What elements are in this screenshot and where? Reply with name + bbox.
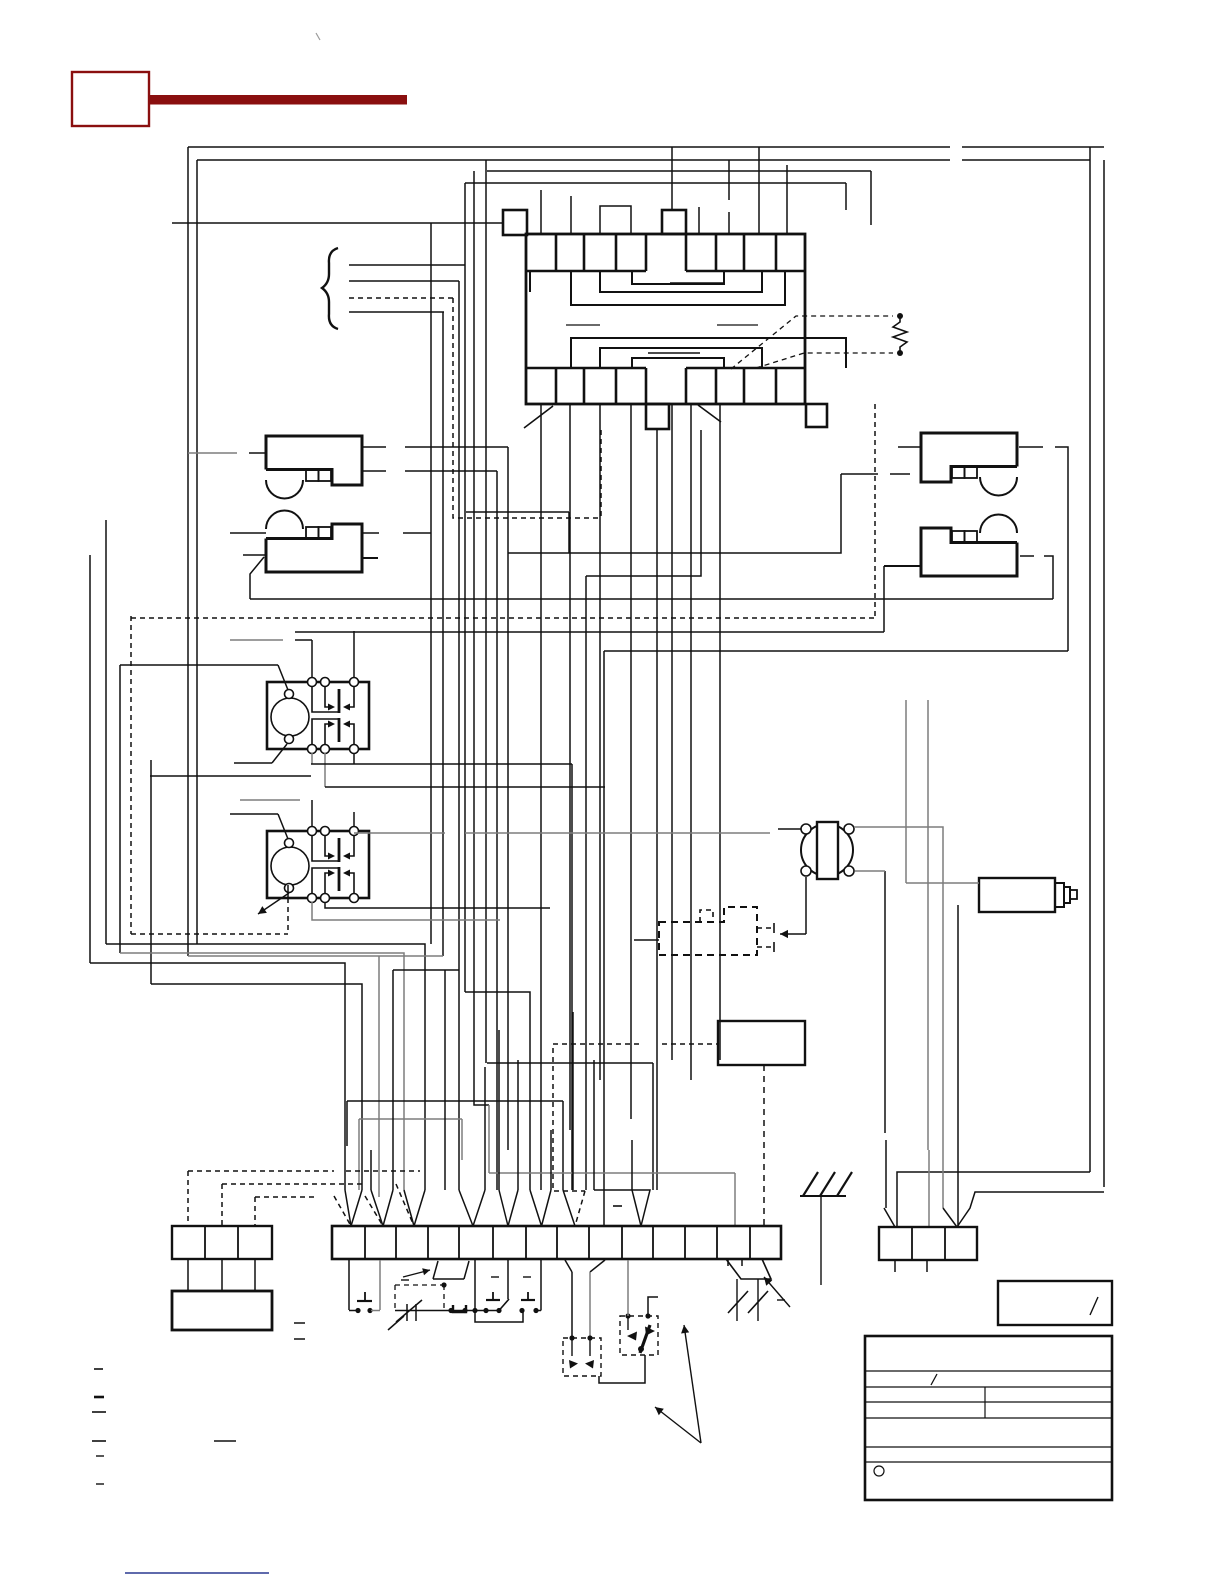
wire gray run y1119 [359,1118,462,1120]
wire K3 left lead 2 [841,473,878,475]
wire K2 left lead [230,532,266,534]
motor M1 (upper actuator) [267,682,369,749]
wire drop x572 [571,1272,573,1338]
aux connector CR1 stubs below [894,1260,896,1272]
wire sw drop x475 [474,1260,476,1311]
dashed run y1197 [255,1196,318,1198]
junction block outrigger box T1 [662,210,686,234]
wire run y651 [604,650,1068,652]
wire bundle turn y944 [106,944,425,1190]
dashed link to resistor lower [756,353,893,368]
red header placeholder box [72,72,149,126]
wire run y787 [325,786,605,788]
wire drop x563 [562,1101,564,1190]
dashed unit outline [659,907,757,955]
switch arrow [403,1270,430,1277]
junction block outline [526,234,805,404]
cylinder sensor steps [1055,883,1064,907]
legend box [998,1281,1112,1325]
annotation dash mid [214,1440,236,1442]
wire K2 elbow lead [243,554,266,556]
main strip connector [332,1226,781,1259]
switch S4 lever [499,1299,509,1311]
wire K3 left lead 1 [898,446,921,448]
wire bundle turn y956 [188,955,443,957]
wire funnel f575 half-dashed [563,1190,575,1226]
wire top run A [487,170,871,172]
wire top drop x787 [786,165,788,234]
wire funnel right f895 [884,1208,895,1227]
wire staple x600-x631 [600,206,631,234]
wire buzzer drop arrow [805,877,807,934]
wire column x459 [458,281,460,970]
wire column x885 lower [884,871,886,1133]
red header rule bar [149,95,407,105]
wire funnel f641 [594,1190,650,1226]
wire box B1 dashed left [553,1043,643,1045]
dashed enclosure left [130,616,132,934]
wire column x906 [905,700,907,883]
ground symbol [800,1195,846,1197]
wire funnel right f957 leg [943,1208,957,1227]
relay K2 (left lower) [266,524,362,572]
wire K1 right lead 2 [362,470,386,472]
arrow long 1 [684,1325,701,1443]
wire drop x590 gray [589,1272,591,1338]
title table circle [874,1466,884,1476]
switch S7 dashed box [620,1316,658,1355]
wire column x465 [464,183,466,992]
wire column x875 dashed [874,404,876,618]
wire M2 top lead b [311,800,313,827]
aux connector CL1 [172,1226,272,1259]
wire column x720 [719,404,721,1060]
wire column x672 [671,404,673,1060]
junction block top pin row [526,270,646,272]
dashed unit pins [757,927,774,929]
wire column x884 upper [883,566,885,632]
relay K3 (right upper) [921,433,1017,482]
junction block bus stub x530 [529,271,531,292]
dashed link to resistor upper [731,316,893,369]
wire column x604 [603,651,605,1226]
wire funnel f414 [404,1190,414,1226]
wire top drop x729 [728,160,730,200]
wire M1 bottom lead c [353,753,355,764]
junction block outrigger box T0 [503,210,527,235]
wire run y764 [311,763,572,765]
wire column x928 [927,700,929,1150]
switch S2 dashed enclosure [395,1284,442,1286]
dashed run y1171 [188,1170,334,1172]
wire K2 right lead 1 [362,532,379,534]
wire bundle turn y970 [393,969,459,971]
wire run y776 [150,775,311,777]
wire drop x347 [346,1101,348,1146]
wire column x443 [442,312,444,956]
title table slash mark [931,1374,937,1385]
buzzer BZ1 [801,824,853,876]
wire trapezoid feeders [727,1259,729,1266]
wire bundle turn y984 [151,984,362,1190]
arrow into trapezoid [764,1277,790,1307]
wire cylinder lower lead [957,905,959,1227]
wire run y1101 [347,1100,563,1102]
aux connector CL1 links [187,1259,189,1291]
wire buzzer left lead [465,832,770,834]
wire buzzer right lead top [854,827,943,1208]
junction block bottom pin row [526,367,646,369]
aux block CL2 [172,1291,272,1330]
wire run y599 long [250,598,1053,600]
switch S2 minus [401,1279,409,1281]
junction block outrigger box B1 [806,404,827,427]
wire run y576 [586,430,701,576]
wire trapezoid drop [726,1259,771,1279]
dash mark near strip [613,1205,622,1207]
wire M1 top lead b [311,640,313,678]
annotation dash 2 [94,1396,104,1399]
wire column x151 [150,760,152,984]
dashed drops to aux connector [187,1171,189,1226]
arrow long 2 [655,1407,701,1443]
resistor (test) zigzag [897,313,903,319]
wire brace line 4 [349,311,444,313]
wire jog y512 [466,511,569,513]
wire funnel f383 [371,1190,383,1226]
junction block inner bus top [571,271,785,305]
switch S5 pushbutton [527,1292,529,1300]
switch S7 contacts [627,1316,629,1330]
wire M2 top lead a [230,813,278,815]
annotation dash 1 [94,1368,103,1370]
wire drop x653 [652,1063,654,1190]
control box B1 [718,1021,805,1065]
wire frame right lower turn outer [957,1192,1104,1227]
wire gray run y1173 [489,1172,735,1174]
wire frame left inner [196,160,198,944]
footer blue rule [125,1572,269,1574]
wire funnel dashed d553 [553,1048,585,1191]
aux connector CR1 [879,1227,977,1260]
wire buzzer right lead bottom [855,870,885,872]
wire run y553 [508,474,841,553]
wire K1 left lead [188,452,237,454]
wire left entry to box T0 [172,222,503,224]
wire M2 bottom lead a [312,902,500,920]
wire column x691 [690,404,692,1080]
wire bundle turn y963 [90,963,345,1190]
annotation dash CL2 a [294,1322,305,1324]
wire S6 to S7 link [599,1355,645,1383]
wire out-funnel [565,1260,572,1272]
wire sw z-jog [433,1261,438,1279]
wire gray rise x489 [488,1105,490,1173]
wire box B1 dashed drop [763,1065,765,1226]
wire feeders above strip [392,970,394,1190]
switch S1 pushbutton [364,1292,366,1301]
title table rows [865,1370,1112,1372]
wire funnel f508 [499,1190,508,1226]
wire bus y1310 [395,1310,499,1312]
switch S6 contacts [571,1338,573,1356]
wire column x508 [507,447,509,1150]
wire funnel f541 [530,1190,542,1226]
wire block diag stub right [698,405,721,422]
wire column x120 [119,665,121,953]
wire column x431 [430,223,432,944]
cylinder sensor body [979,878,1055,912]
annotation dash 5 [96,1455,104,1457]
wire K3 right lead [1019,446,1043,448]
wire M1 bottom lead a [311,753,313,764]
wire frame top outer [188,146,950,148]
harness brace [322,248,338,329]
wire M1 bottom lead b [324,753,326,787]
wire sw drop x349 [348,1260,350,1310]
wire M2 dashed drop [287,898,289,934]
wire M1 top lead c [353,631,355,678]
wire top drop x759 [758,147,760,234]
annotation dash CL2 b [294,1338,305,1340]
wire K4 left lead [884,565,921,567]
wire sw drop x508 [507,1260,509,1299]
wire stub block bottom x570 [569,404,571,1130]
wire column x631 [630,404,632,1119]
switch S4 minus [491,1276,499,1278]
wire frame top inner [197,159,950,161]
wire K1 right lead 1 [362,446,386,448]
wire stub x699 [698,207,700,234]
dashed funnel legs left [334,1196,351,1226]
wire slash switch verticals [736,1279,738,1321]
wire bundle turn y953 [120,953,404,1190]
wire column x106 [105,520,107,944]
wire column x497 [496,471,498,1190]
switch S4 pushbutton [492,1292,494,1300]
wire brace line 1 [349,264,465,266]
stray tick mark [316,33,320,40]
wire block diag stub left [524,406,553,428]
wire run y632 long [295,631,884,633]
switch S6 dashed box [563,1338,601,1376]
relay K4 (right lower) [921,528,1017,576]
dashed enclosure bottom [131,933,288,935]
wire M1 bottom diag [234,762,272,764]
annotation dash 4 [92,1440,106,1442]
wire column x586 [585,576,587,1190]
wire cylinder left lead [906,882,979,884]
wire run y1063 [487,1062,653,1064]
junction block inner bus bottom [571,338,846,368]
switch S2 capacitor plates [406,1304,408,1321]
wire stub x541 [540,190,542,234]
title table outline [865,1336,1112,1500]
wire funnel f473 [459,1190,473,1226]
wire column x657 [656,429,658,1190]
wire K4 right lead [1020,555,1034,557]
wire brace line 2 [349,280,459,282]
junction block mid dash left [566,324,600,326]
wire column x486 [485,160,487,1063]
wire slash switch slashes [728,1291,748,1313]
wire M1 top lead a [120,664,278,666]
wire stub x571 [570,196,572,234]
wire column x474 [474,171,489,1105]
dashed run y1184 [222,1183,365,1185]
wire dashed unit left lead [634,939,659,941]
wire run y618 dashed [131,617,875,619]
wire frame right outer [1103,160,1105,1187]
wire M2 arrow out [287,885,289,898]
wire brace line 3 dashed [349,297,453,299]
wire S7 drops [627,1260,629,1316]
wire M2 top lead c [353,812,355,827]
annotation dash 6 [96,1483,104,1485]
wire gray drop x359 [358,1119,360,1190]
junction block mid dash right [717,324,758,326]
wire column x90 [89,555,91,963]
wire dashed rise x601 [600,430,602,518]
wire sw gray x380 [379,1260,381,1310]
junction block outrigger box B0 [646,404,669,429]
wire gray drop x462 [461,1119,463,1160]
switch S5 minus [523,1276,531,1278]
title table divider [984,1387,986,1418]
wire top run B [465,182,846,184]
dashed unit notch [700,910,713,922]
wire top drop to box T1 [671,147,673,210]
annotation dash 3 [92,1411,106,1413]
wire column x453 dashed [453,298,601,518]
wire slash minus [777,1299,785,1301]
wire frame right lower turn inner [897,1172,1090,1227]
wire frame right inner [1089,147,1091,1172]
wire M2 lead right [354,832,445,834]
switch S2 slashes [396,1300,422,1322]
wire sw lower bus [475,1311,523,1323]
wire bundle turn y992 [465,992,530,1190]
wire funnel f351 [345,1190,351,1226]
wire K2 right lead 2 [362,557,378,559]
wire gray drop x736 [734,1173,736,1226]
wire sw drop x541b [540,1260,542,1311]
wire stub block bottom x600 [599,404,601,1080]
switch NC contact [453,1305,466,1312]
motor M2 (lower actuator) [267,831,369,898]
wire M2 bottom lead b [325,902,550,908]
wire stub block bottom x541 [540,404,542,1190]
wire frame left outer [187,147,189,956]
relay K1 (left upper) [266,436,362,485]
